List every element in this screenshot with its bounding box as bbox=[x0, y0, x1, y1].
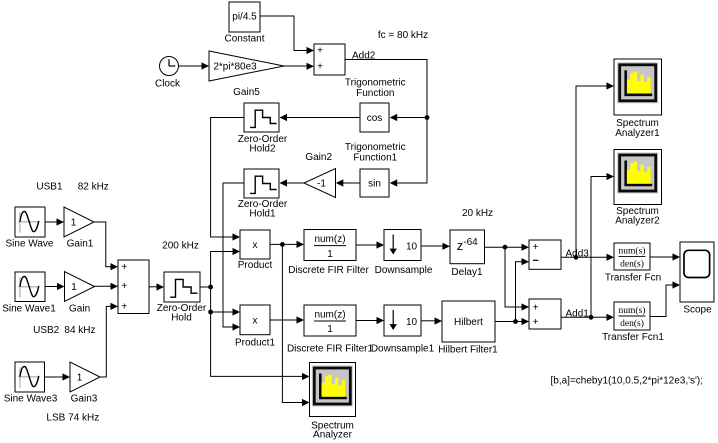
wire Zero-Order Hold output to 200kHz node bbox=[200, 286, 211, 288]
wire sin to Gain2 bbox=[343, 182, 360, 184]
svg-text:+: + bbox=[533, 242, 539, 253]
product block bbox=[240, 230, 270, 259]
svg-text:1: 1 bbox=[327, 249, 333, 260]
svg-text:USB2: USB2 bbox=[33, 325, 60, 336]
junction Add3 output bbox=[574, 255, 579, 260]
wire Add2 output down right side bbox=[345, 60, 427, 184]
wire Product to Discrete FIR Filter bbox=[270, 243, 297, 245]
hilbert filter block bbox=[442, 301, 495, 342]
svg-text:+: + bbox=[317, 45, 323, 56]
wire Constant to Add2 in1 bbox=[260, 16, 307, 51]
transfer fcn1 block bbox=[614, 302, 650, 330]
svg-text:1: 1 bbox=[77, 373, 83, 384]
downsample block bbox=[384, 230, 421, 261]
svg-text:Hold: Hold bbox=[171, 312, 192, 323]
svg-text:den(s): den(s) bbox=[620, 259, 644, 270]
wire 200kHz node down to Spectrum Analyzer in1 bbox=[211, 287, 302, 376]
spectrum analyzer2 block bbox=[614, 150, 662, 205]
svg-text:Trigonometric: Trigonometric bbox=[345, 142, 406, 153]
svg-text:[b,a]=cheby1(10,0.5,2*pi*12e3,: [b,a]=cheby1(10,0.5,2*pi*12e3,'s'); bbox=[551, 375, 704, 386]
svg-text:num(s): num(s) bbox=[619, 305, 646, 316]
sum block Add3 bbox=[529, 240, 561, 269]
svg-text:200 kHz: 200 kHz bbox=[162, 240, 199, 251]
wire Sine Wave3 to Gain3 bbox=[45, 376, 63, 378]
svg-text:Downsample: Downsample bbox=[375, 265, 433, 276]
svg-text:Discrete FIR Filter: Discrete FIR Filter bbox=[288, 265, 369, 276]
svg-text:Add3: Add3 bbox=[566, 248, 590, 259]
wire Zero-Order Hold1 to Product1 in2 bbox=[223, 183, 244, 327]
product1 block bbox=[240, 305, 270, 335]
wire Hilbert branch up to Add3 in2 bbox=[516, 262, 522, 322]
svg-text:cos: cos bbox=[367, 113, 383, 124]
svg-text:Analyzer2: Analyzer2 bbox=[615, 215, 660, 226]
svg-text:1: 1 bbox=[327, 324, 333, 335]
wire Sine Wave to Gain1 bbox=[45, 221, 57, 223]
svg-text:1: 1 bbox=[71, 282, 77, 293]
wire Delay1 branch down to Add1 in1 bbox=[505, 247, 522, 307]
wire Delay1 to Add3 in1 bbox=[485, 246, 522, 248]
wire Add3 branch up to Spectrum Analyzer1 bbox=[576, 86, 607, 257]
svg-text:Sine Wave3: Sine Wave3 bbox=[4, 394, 58, 405]
svg-text:+: + bbox=[121, 262, 127, 273]
svg-text:USB1: USB1 bbox=[36, 182, 63, 193]
sine wave source block bbox=[15, 207, 45, 237]
svg-text:Analyzer: Analyzer bbox=[313, 430, 353, 441]
svg-text:84 kHz: 84 kHz bbox=[64, 325, 95, 336]
downsample1 block bbox=[384, 305, 421, 336]
svg-text:Discrete FIR Filter1: Discrete FIR Filter1 bbox=[287, 344, 374, 355]
svg-text:Delay1: Delay1 bbox=[451, 267, 483, 278]
wire Gain1 to Sum in1 bbox=[94, 222, 111, 267]
svg-text:82 kHz: 82 kHz bbox=[78, 182, 109, 193]
wire branch to cos bbox=[397, 117, 427, 119]
wire Gain to Sum in2 bbox=[95, 285, 111, 287]
sum block 3 inputs bbox=[118, 260, 149, 314]
svg-text:Downsample1: Downsample1 bbox=[371, 344, 435, 355]
discrete FIR filter1 block bbox=[304, 305, 356, 336]
wire Discrete FIR Filter1 to Downsample1 bbox=[356, 320, 377, 322]
svg-text:+: + bbox=[121, 281, 127, 292]
wire Transfer Fcn1 to Scope in2 bbox=[650, 285, 673, 317]
junction Hilbert output bbox=[513, 319, 518, 324]
wire Zero-Order Hold2 to Product in1 bbox=[211, 118, 244, 238]
gain3 triangle bbox=[70, 362, 100, 392]
svg-text:Hilbert Filter1: Hilbert Filter1 bbox=[438, 345, 498, 356]
svg-text:-1: -1 bbox=[317, 178, 326, 189]
wire Discrete FIR Filter to Downsample bbox=[356, 244, 377, 246]
svg-text:den(s): den(s) bbox=[620, 318, 644, 329]
wire cos to Zero-Order Hold2 bbox=[287, 117, 360, 119]
svg-text:10: 10 bbox=[406, 317, 418, 328]
svg-text:1: 1 bbox=[71, 218, 77, 229]
wire Add1 to Transfer Fcn1 bbox=[561, 316, 607, 318]
svg-text:Gain1: Gain1 bbox=[67, 238, 94, 249]
wire Product1 to Discrete FIR Filter1 bbox=[270, 319, 297, 321]
scope block bbox=[680, 242, 714, 302]
gain5 triangle 2*pi*80e3 bbox=[209, 51, 284, 81]
wire Downsample to Delay1 bbox=[421, 245, 443, 247]
discrete FIR filter block bbox=[304, 230, 356, 261]
svg-text:Hilbert: Hilbert bbox=[454, 317, 483, 328]
zero-order hold1 block bbox=[244, 169, 279, 198]
wire Sum to Zero-Order Hold bbox=[149, 286, 157, 288]
svg-text:LSB 74 kHz: LSB 74 kHz bbox=[46, 412, 99, 423]
svg-text:x: x bbox=[253, 316, 258, 327]
wire Product output down to Spectrum Analyzer in2 bbox=[282, 244, 302, 402]
svg-text:Gain2: Gain2 bbox=[305, 152, 332, 163]
svg-text:Function: Function bbox=[356, 88, 394, 99]
sine wave1 source block bbox=[15, 272, 45, 302]
svg-text:Sine Wave1: Sine Wave1 bbox=[2, 303, 56, 314]
svg-text:Hold2: Hold2 bbox=[249, 143, 276, 154]
svg-text:+: + bbox=[533, 302, 539, 313]
svg-text:+: + bbox=[533, 317, 539, 328]
transfer fcn block bbox=[614, 243, 650, 270]
svg-text:x: x bbox=[253, 240, 258, 251]
svg-text:num(z): num(z) bbox=[314, 234, 345, 245]
svg-text:+: + bbox=[121, 302, 127, 313]
svg-text:Transfer Fcn1: Transfer Fcn1 bbox=[602, 332, 664, 343]
sum block Add2 bbox=[314, 44, 345, 75]
svg-text:Clock: Clock bbox=[155, 79, 181, 90]
svg-text:10: 10 bbox=[406, 241, 418, 252]
junction Product output bbox=[280, 242, 285, 247]
wire Add1 branch up to Spectrum Analyzer2 bbox=[591, 177, 607, 318]
wire Add3 to Transfer Fcn bbox=[561, 256, 607, 258]
svg-text:Gain5: Gain5 bbox=[233, 87, 260, 98]
svg-text:Sine Wave: Sine Wave bbox=[6, 238, 54, 249]
svg-text:Add1: Add1 bbox=[566, 308, 590, 319]
svg-text:Transfer Fcn: Transfer Fcn bbox=[605, 272, 661, 283]
gain1 triangle bbox=[64, 207, 94, 237]
junction Add1 output bbox=[589, 315, 594, 320]
svg-text:pi/4.5: pi/4.5 bbox=[232, 12, 257, 23]
svg-text:fc = 80 kHz: fc = 80 kHz bbox=[378, 30, 428, 41]
wire Gain3 to Sum in3 bbox=[100, 306, 111, 377]
wire Transfer Fcn to Scope in1 bbox=[650, 256, 673, 258]
svg-text:Constant: Constant bbox=[224, 34, 264, 45]
junction Delay1 output bbox=[503, 245, 508, 250]
gain triangle bbox=[65, 272, 95, 302]
delay1 block z^-64 bbox=[450, 230, 485, 264]
wire branch to Product1 in1 bbox=[211, 311, 233, 313]
wire Hilbert to Add1 in2 bbox=[495, 321, 522, 323]
zero-order hold2 block bbox=[244, 103, 279, 132]
wire Gain5 to Add2 in2 bbox=[284, 65, 307, 67]
svg-text:sin: sin bbox=[368, 179, 381, 190]
svg-text:Gain3: Gain3 bbox=[71, 394, 98, 405]
sum block Add1 bbox=[529, 299, 561, 329]
svg-text:Scope: Scope bbox=[683, 305, 712, 316]
svg-text:Add2: Add2 bbox=[352, 51, 376, 62]
svg-text:+: + bbox=[317, 62, 323, 73]
wire Gain2 to Zero-Order Hold1 bbox=[287, 182, 304, 184]
svg-text:2*pi*80e3: 2*pi*80e3 bbox=[213, 62, 257, 73]
clock block bbox=[160, 57, 179, 76]
spectrum analyzer1 block bbox=[614, 59, 662, 115]
wire Sine Wave1 to Gain bbox=[45, 286, 57, 288]
spectrum analyzer block bbox=[310, 363, 356, 417]
zero-order hold block bbox=[164, 272, 200, 302]
junction 200kHz A bbox=[208, 285, 213, 290]
wire 200kHz node up to Product in2 bbox=[211, 252, 233, 288]
svg-text:num(s): num(s) bbox=[619, 246, 646, 257]
svg-text:Analyzer1: Analyzer1 bbox=[615, 128, 660, 139]
svg-text:Hold1: Hold1 bbox=[249, 209, 276, 220]
svg-text:Product: Product bbox=[238, 260, 273, 271]
junction 200kHz B bbox=[208, 310, 213, 315]
wire Clock to Gain5 bbox=[179, 65, 202, 67]
svg-text:Function1: Function1 bbox=[353, 153, 397, 164]
sine wave3 source block bbox=[15, 362, 45, 392]
wire Downsample1 to Hilbert Filter1 bbox=[421, 320, 435, 322]
svg-text:z: z bbox=[457, 238, 464, 253]
svg-text:num(z): num(z) bbox=[314, 310, 345, 321]
svg-text:-64: -64 bbox=[463, 237, 478, 248]
svg-text:Gain: Gain bbox=[69, 303, 90, 314]
junction on Add2 signal bbox=[425, 115, 430, 120]
svg-text:20 kHz: 20 kHz bbox=[462, 208, 493, 219]
constant block pi/4.5 bbox=[229, 2, 260, 32]
svg-text:Product1: Product1 bbox=[235, 338, 275, 349]
